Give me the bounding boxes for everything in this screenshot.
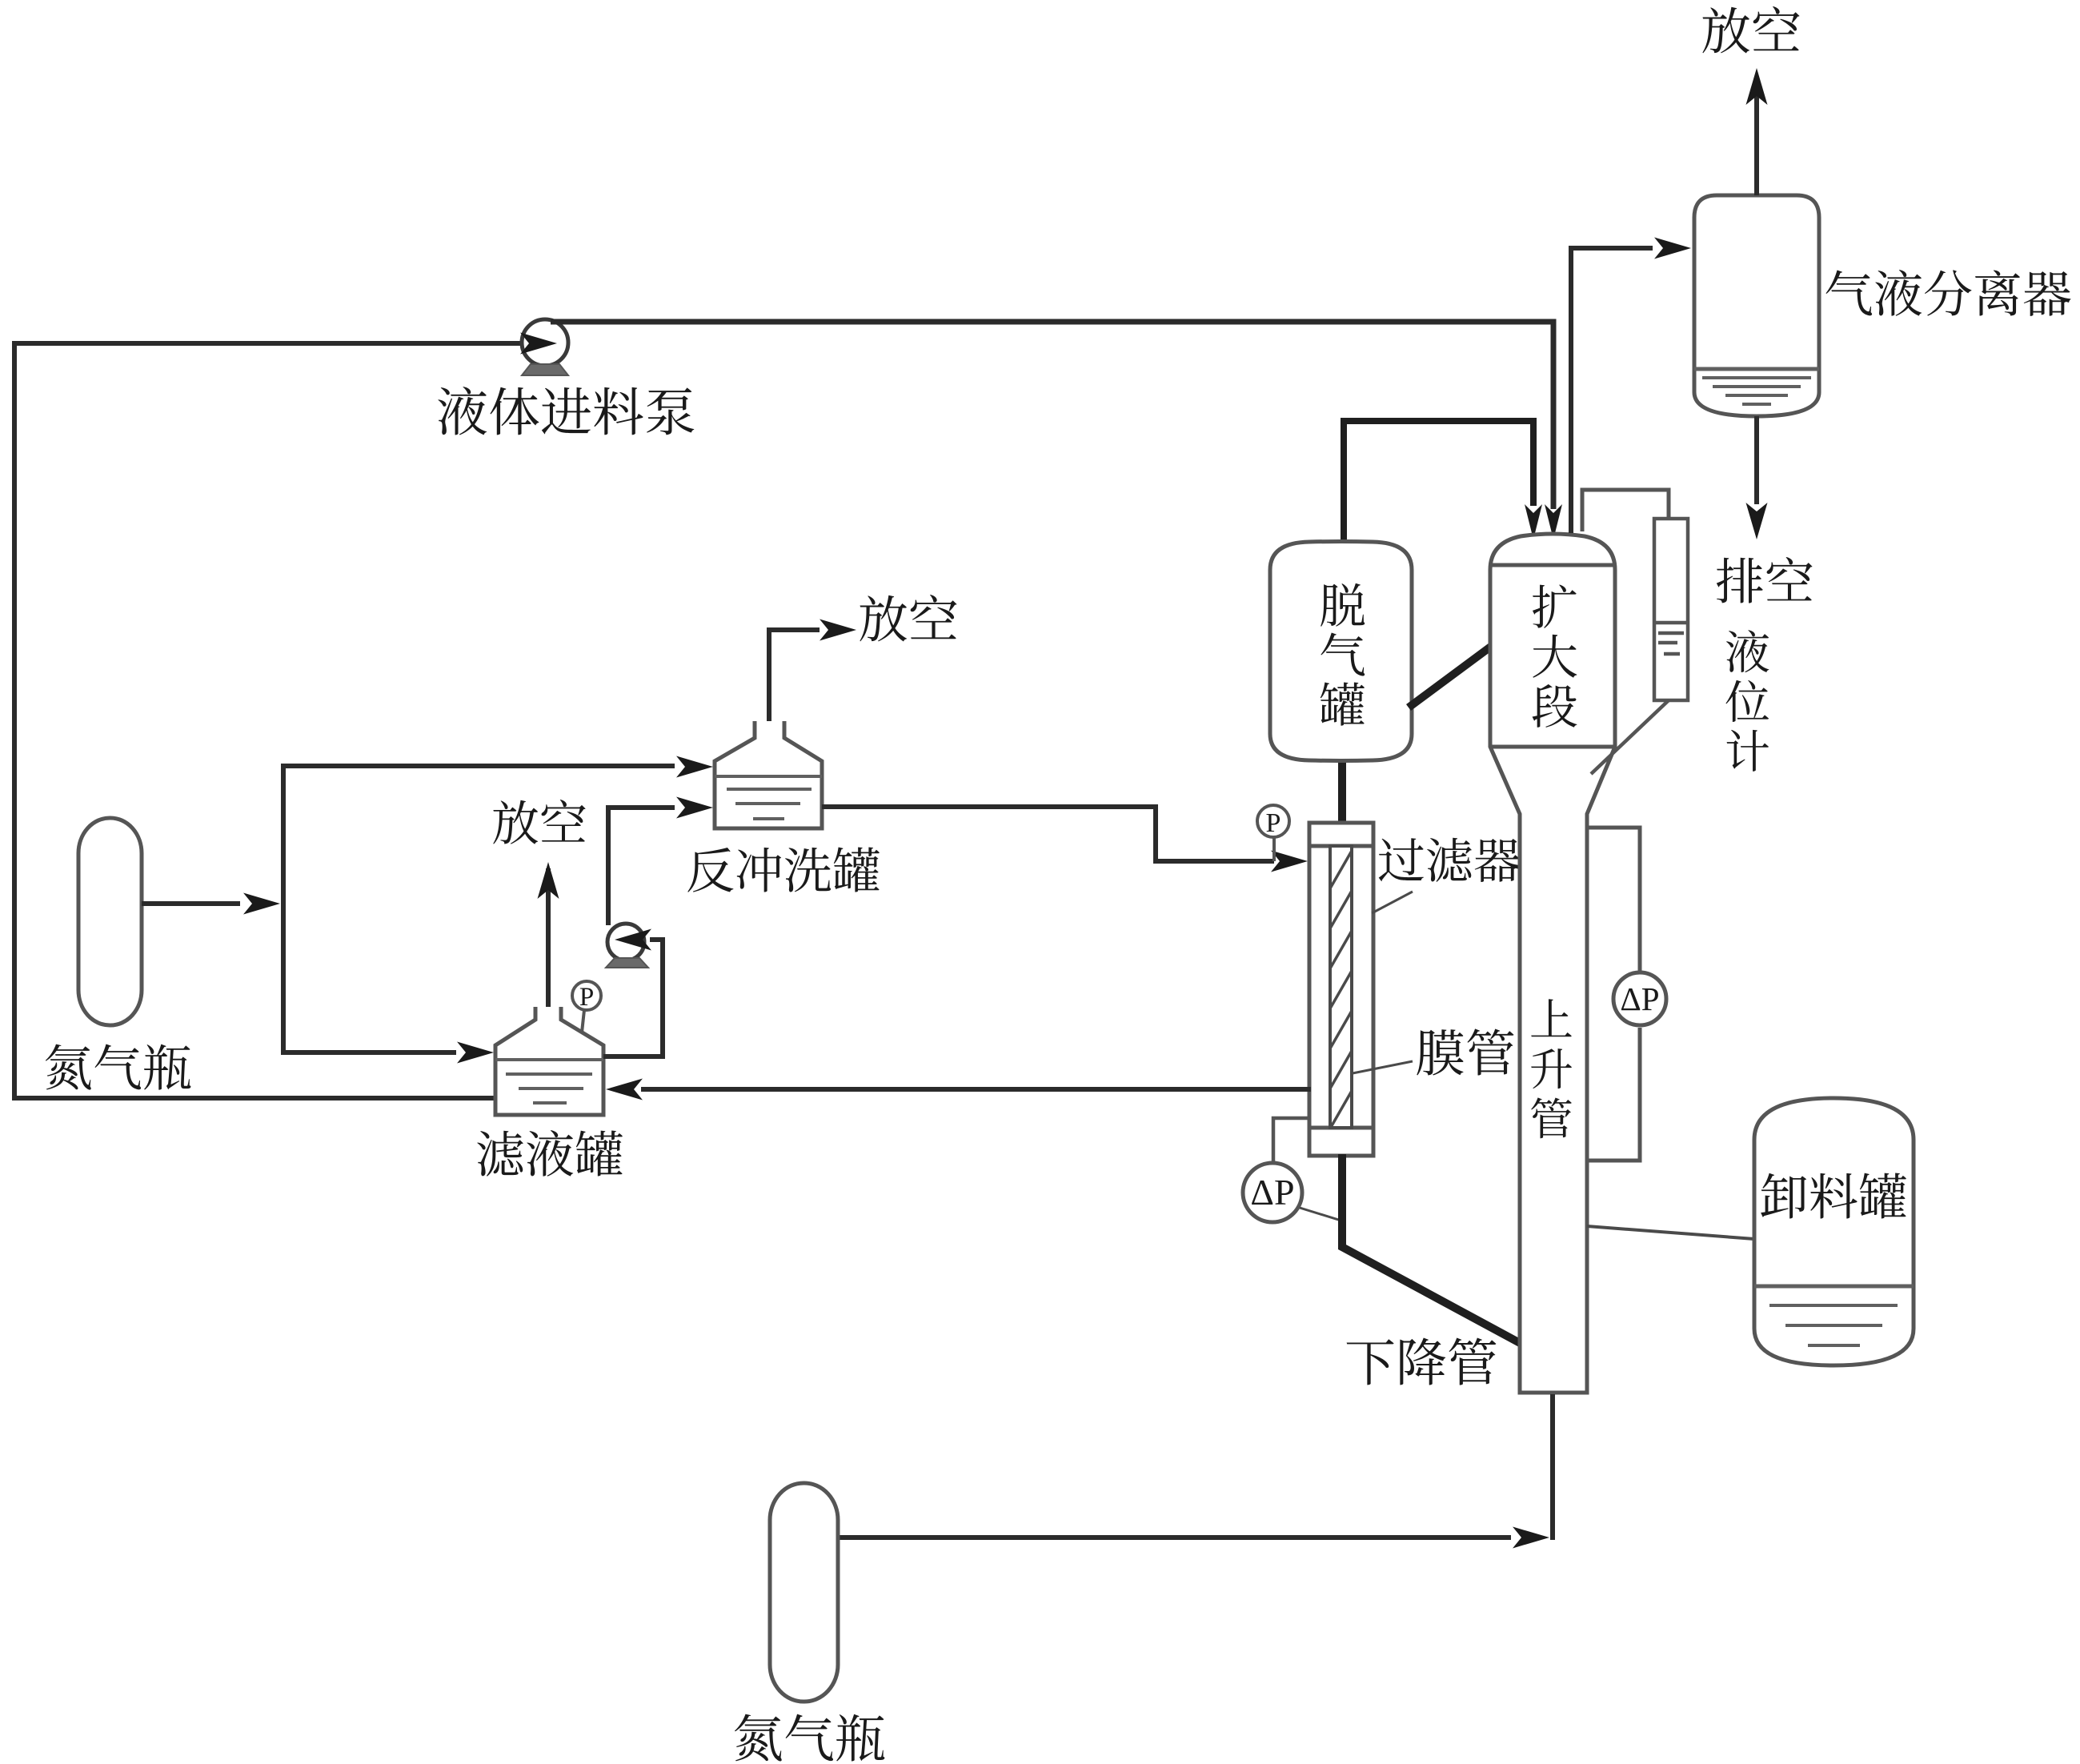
- svg-text:ΔP: ΔP: [1250, 1172, 1294, 1213]
- wire: riser bottom outlet: [1550, 1394, 1555, 1540]
- wire: backflush pump discharge to backflush tank: [608, 808, 675, 925]
- arrow: permeate into filtrate tank: [606, 1079, 643, 1100]
- wire: degas tank bottom to filter top (thick): [1338, 760, 1346, 824]
- backflush tank vent line: [769, 630, 820, 725]
- dP tap top (riser): [1587, 828, 1640, 971]
- arrow: degas loop into expansion section: [1525, 504, 1542, 539]
- dP tap bottom (riser): [1589, 1028, 1640, 1161]
- wire: bottom return line into filtrate tank: [12, 1096, 497, 1100]
- svg-text:P: P: [579, 983, 594, 1012]
- leader from dP gauge to downcomer: [1300, 1208, 1344, 1221]
- label: 反冲洗罐: [687, 847, 880, 892]
- arrow: feed into filter: [1271, 851, 1308, 872]
- label: 扩大段: [1533, 584, 1577, 727]
- arrow: into backflush tank upper inlet: [676, 756, 713, 778]
- wire: discharge line to dump tank: [1587, 1226, 1754, 1239]
- separator bottom drain: [1754, 416, 1759, 504]
- dP gauge (riser): [1613, 972, 1666, 1025]
- svg-text:P: P: [1266, 808, 1281, 838]
- wire: pump discharge line to expansion section: [551, 322, 1553, 509]
- pressure gauge P on filter feed: [1257, 805, 1289, 861]
- arrow: separator vent up: [1746, 68, 1768, 105]
- wire: feed line from left frame to pump: [14, 341, 524, 346]
- nitrogen bottle (top left): [78, 818, 142, 1025]
- wire: manifold top branch to backflush tank: [283, 764, 675, 768]
- filtrate tank liquid level lines: [495, 1060, 603, 1103]
- membrane tube with hatching: [1330, 846, 1352, 1129]
- arrow: backflush vent: [820, 619, 856, 641]
- label: 液位计: [1725, 630, 1769, 772]
- label: 液体进料泵: [438, 387, 694, 435]
- arrow: separator drain down: [1746, 503, 1768, 539]
- arrow: into backflush tank lower inlet: [676, 797, 713, 819]
- label: 膜管: [1417, 1028, 1513, 1075]
- arrow: into gas-liquid separator: [1654, 238, 1691, 259]
- arrow: filtrate tank vent up: [538, 862, 559, 899]
- wire: nitrogen supply to manifold: [142, 901, 240, 906]
- separator liquid level lines: [1694, 369, 1819, 404]
- label: 下降管: [1347, 1337, 1497, 1385]
- wire: backflush tank outlet to filter: [822, 807, 1274, 861]
- gas-liquid separator: [1694, 195, 1819, 416]
- dP gauge tap at filter bottom: [1273, 1118, 1309, 1161]
- discharge tank: [1754, 1098, 1914, 1365]
- leader line to membrane label: [1353, 1061, 1413, 1073]
- label: 氮气瓶 (bottom): [735, 1714, 884, 1762]
- liquid feed pump: [522, 319, 568, 375]
- label: 气液分离器: [1826, 270, 2070, 316]
- arrow: nitrogen into downcomer: [1513, 1527, 1549, 1549]
- label: 脱气罐: [1321, 583, 1365, 726]
- wire: manifold bottom branch to filtrate tank: [283, 1050, 456, 1055]
- label: 卸料罐: [1761, 1173, 1906, 1219]
- wire: degas loop to expansion section (thick): [1344, 421, 1533, 543]
- wire: bottom nitrogen line: [838, 1535, 1511, 1540]
- svg-text:ΔP: ΔP: [1620, 980, 1659, 1017]
- label: 滤液罐: [477, 1130, 623, 1177]
- expansion section vessel: [1490, 534, 1615, 1393]
- label: 氮气瓶 (top left): [46, 1044, 191, 1090]
- leader line to filter label: [1372, 892, 1413, 913]
- label: 过滤器: [1379, 838, 1521, 882]
- arrow: feed down into expansion section: [1545, 504, 1562, 539]
- arrow: into filtrate tank inlet: [457, 1042, 494, 1064]
- level gauge bottom connector: [1591, 700, 1669, 774]
- filtrate tank vent line: [546, 868, 551, 1010]
- label: 上升管: [1531, 999, 1572, 1138]
- wire: filter permeate to filtrate tank: [641, 1087, 1311, 1092]
- wire: filtrate tank to backflush pump loop: [603, 940, 663, 1056]
- backflush tank liquid level lines: [715, 776, 822, 819]
- wire: expansion section to separator: [1571, 248, 1653, 533]
- pressure gauge P on filtrate tank: [572, 981, 601, 1032]
- arrow: into backflush pump: [615, 929, 651, 951]
- arrow: feed into pump: [520, 333, 557, 355]
- wire: diagonal degas return (thick): [1409, 643, 1495, 708]
- backflush tank: [715, 721, 822, 828]
- backflush pump: [606, 924, 648, 968]
- label: 放空 (filtrate vent): [493, 800, 585, 844]
- nitrogen bottle (bottom): [770, 1483, 838, 1702]
- label: 放空 (separator vent): [1702, 6, 1799, 54]
- filtrate tank: [495, 1007, 603, 1115]
- wire: filter bottom to downcomer (thick): [1342, 1154, 1521, 1344]
- liquid level gauge: [1654, 519, 1688, 700]
- wire: left vertical return line: [12, 341, 17, 1100]
- label: 排空: [1717, 557, 1813, 603]
- dP gauge (filter): [1243, 1163, 1302, 1222]
- wire: nitrogen manifold vertical: [281, 764, 286, 1055]
- degassing tank: [1270, 542, 1412, 761]
- label: 放空 (backflush vent): [860, 595, 956, 642]
- membrane filter shell: [1309, 823, 1373, 1156]
- separator vent line: [1754, 78, 1759, 195]
- level gauge connector top: [1582, 490, 1669, 531]
- discharge tank liquid level lines: [1754, 1286, 1914, 1345]
- arrow: nitrogen into manifold: [243, 893, 280, 915]
